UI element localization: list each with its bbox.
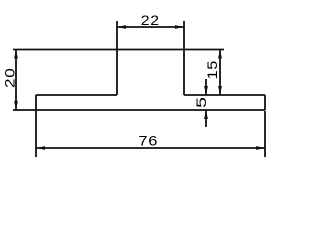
- wire: 76 dimension line: [36, 147, 265, 149]
- node: arrow 22 left: [117, 25, 126, 29]
- wire: 20 dimension line: [15, 50, 17, 111]
- node: arrow 15 top: [218, 50, 222, 59]
- node: arrow 15 bottom: [218, 86, 222, 95]
- svg-text:22: 22: [141, 14, 160, 29]
- wire: 5 dimension lower pointer: [205, 110, 207, 127]
- wire: 15 dimension line: [219, 50, 221, 96]
- wire: 76 left extension line: [35, 110, 37, 157]
- svg-text:5: 5: [194, 96, 209, 108]
- node: arrow 5 bottom: [204, 110, 208, 119]
- node: arrow 76 left: [36, 146, 45, 150]
- node: arrow 20 bottom: [14, 101, 18, 110]
- wire: plate right edge: [264, 95, 266, 110]
- node: arrow 76 right: [256, 146, 265, 150]
- svg-text:76: 76: [138, 134, 158, 149]
- node: arrow 22 right: [175, 25, 184, 29]
- svg-text:15: 15: [205, 60, 220, 80]
- wire: 5 dimension upper pointer: [205, 79, 207, 95]
- wire: boss left side with extension to 22 dim: [116, 21, 118, 95]
- wire: boss right side with extension to 22 dim: [183, 21, 185, 95]
- node: arrow 5 top: [204, 86, 208, 95]
- wire: plate top left segment: [36, 94, 117, 96]
- wire: 22 dimension line: [117, 26, 184, 28]
- wire: plate bottom with 20 extension line: [13, 109, 265, 111]
- wire: plate left edge: [35, 95, 37, 110]
- wire: plate top right segment: [184, 94, 265, 96]
- wire: 76 right extension line: [264, 111, 266, 157]
- node: arrow 20 top: [14, 50, 18, 59]
- wire: boss top with 20 and 15 extension lines: [13, 49, 224, 51]
- svg-text:20: 20: [3, 68, 18, 89]
